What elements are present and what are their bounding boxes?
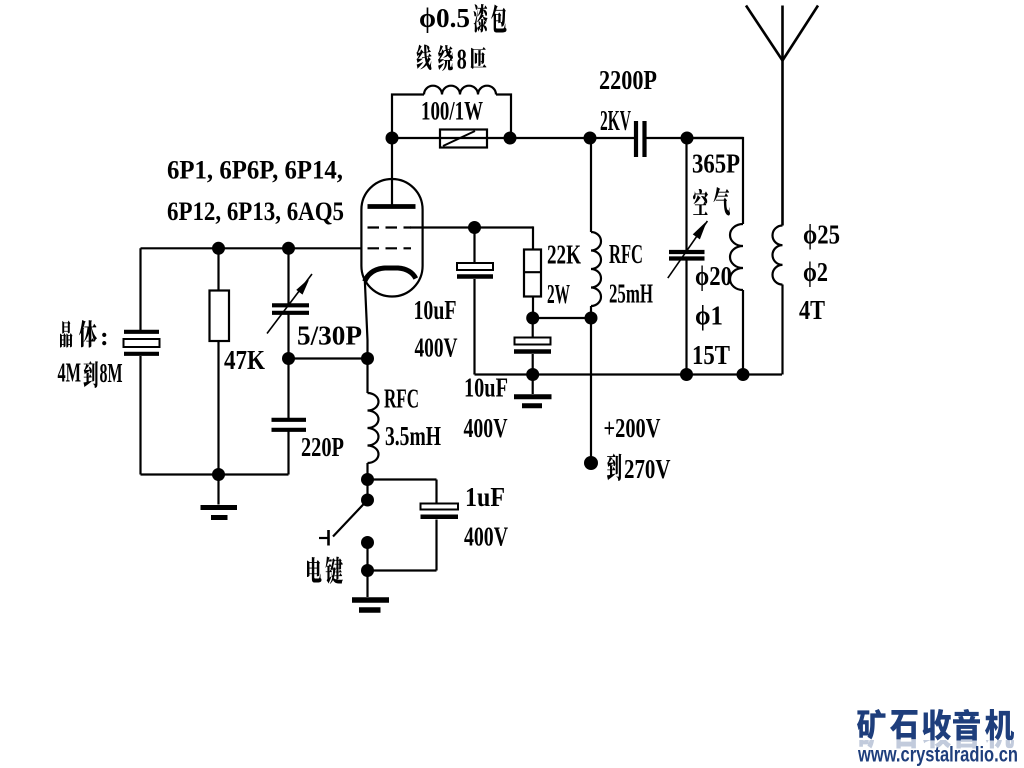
C1 arrow xyxy=(267,274,312,334)
C6 arrow xyxy=(668,221,708,278)
node C5 ground xyxy=(526,368,539,381)
label to 270V xyxy=(607,453,621,481)
inductor RFC2 25mH xyxy=(590,138,592,232)
node key bottom xyxy=(361,564,374,577)
svg-text::: : xyxy=(100,322,109,351)
svg-text:ϕ1: ϕ1 xyxy=(695,301,723,331)
tube V1 screen grid dashed xyxy=(368,226,412,228)
svg-text:ϕ25: ϕ25 xyxy=(803,220,840,250)
node cathode junction xyxy=(361,352,374,365)
ground key xyxy=(366,571,368,598)
wire below R3 xyxy=(532,297,534,319)
key S1 lower contact xyxy=(361,536,374,549)
capacitor C3 220P xyxy=(287,359,289,419)
node below R3 xyxy=(526,312,539,325)
svg-text:365P: 365P xyxy=(692,148,740,178)
key S1 fixed contact xyxy=(327,530,330,546)
svg-text:8: 8 xyxy=(457,44,467,76)
capacitor C5 10uF plate bypass xyxy=(532,318,534,338)
resistor R1 100/1W xyxy=(440,130,487,148)
tube V1 cathode xyxy=(365,268,416,282)
svg-text:220P: 220P xyxy=(301,432,344,462)
node screen bypass xyxy=(468,221,481,234)
key S1 moving contact xyxy=(361,494,374,507)
node key top feed xyxy=(361,473,374,486)
capacitor C7 1uF key bypass xyxy=(368,478,437,480)
svg-text:3.5mH: 3.5mH xyxy=(385,421,441,451)
wire top loop right xyxy=(496,95,511,139)
wire top loop left xyxy=(392,95,424,139)
C2 plus plate xyxy=(457,263,493,270)
svg-text:RFC: RFC xyxy=(609,239,643,269)
svg-text:25mH: 25mH xyxy=(609,279,653,309)
wire grid line xyxy=(141,247,362,249)
capacitor C6 365P air variable xyxy=(685,138,687,250)
inductor L1 plate coil 8 turns xyxy=(424,86,496,95)
wire crystal leg top xyxy=(139,248,141,330)
svg-text:+200V: +200V xyxy=(604,413,661,443)
node coil bottom xyxy=(737,368,750,381)
wire screen to right xyxy=(410,226,533,228)
svg-text:400V: 400V xyxy=(415,332,458,362)
node grid trimmer xyxy=(282,242,295,255)
inductor RFC1 3.5mH cathode choke xyxy=(366,359,368,394)
capacitor C1 5/30P trimmer xyxy=(287,248,289,303)
wire trimmer to cathode xyxy=(289,357,368,359)
vacuum tube V1 envelope xyxy=(361,179,422,297)
svg-text:4T: 4T xyxy=(799,295,825,325)
label S1 dianjian xyxy=(307,557,322,583)
svg-text:RFC: RFC xyxy=(384,383,419,413)
watermark logo kuangshi shouyinji xyxy=(857,709,1014,741)
resistor R3 22K screen xyxy=(524,250,541,297)
svg-text:8M: 8M xyxy=(100,358,123,388)
node grid 47K xyxy=(212,242,225,255)
svg-text:47K: 47K xyxy=(224,345,265,375)
label C6 kongqi xyxy=(693,189,708,215)
terminal B+ xyxy=(584,456,598,470)
svg-text:ϕ2: ϕ2 xyxy=(803,257,828,287)
svg-text:100/1W: 100/1W xyxy=(421,97,483,126)
wire R3 to RFC2 bottom xyxy=(533,317,591,319)
crystal Y1 xyxy=(124,330,159,334)
wire ground bus xyxy=(473,373,475,374)
svg-text:www.crystalradio.cn: www.crystalradio.cn xyxy=(857,744,1018,767)
node tank top xyxy=(681,132,694,145)
watermark logo echo xyxy=(857,717,1014,749)
C2 minus plate xyxy=(457,274,493,279)
node plate junction xyxy=(386,132,399,145)
inductor L3 antenna coil 4T xyxy=(773,226,783,285)
inductor L2 tank coil 15T xyxy=(687,138,743,224)
antenna xyxy=(781,6,784,226)
tube V1 plate xyxy=(368,204,416,209)
wire key to ground xyxy=(366,543,368,571)
node tank bottom left xyxy=(680,368,693,381)
wire key short xyxy=(366,480,368,501)
capacitor C2 10uF screen bypass xyxy=(473,228,475,264)
node RFC2 bottom xyxy=(585,312,598,325)
svg-text:1uF: 1uF xyxy=(465,482,505,512)
svg-text:15T: 15T xyxy=(692,340,730,370)
label L1 xianrao 8 za xyxy=(416,45,431,71)
svg-text:6P12, 6P13, 6AQ5: 6P12, 6P13, 6AQ5 xyxy=(167,197,344,226)
svg-text:2KV: 2KV xyxy=(600,106,631,137)
wire top bus xyxy=(392,137,636,139)
wire plate lead xyxy=(391,138,393,206)
wire B+ feed xyxy=(590,318,592,463)
node rfc2 top xyxy=(584,132,597,145)
svg-text:22K: 22K xyxy=(547,240,581,270)
svg-text:ϕ0.5: ϕ0.5 xyxy=(419,3,470,33)
wire cathode lead xyxy=(365,280,368,359)
wire bottom left rail xyxy=(141,473,289,475)
node loop right xyxy=(504,132,517,145)
capacitor C4 2200P coupling xyxy=(634,121,638,157)
resistor R2 47K grid leak xyxy=(217,248,219,290)
ground under C5 xyxy=(532,375,534,395)
svg-text:2200P: 2200P xyxy=(599,65,657,95)
svg-text:ϕ20: ϕ20 xyxy=(695,261,732,291)
svg-text:400V: 400V xyxy=(464,413,508,443)
svg-text:6P1, 6P6P, 6P14,: 6P1, 6P6P, 6P14, xyxy=(167,156,343,185)
ground left xyxy=(217,475,219,505)
label Y1 jingti xyxy=(60,321,73,348)
key S1 arm xyxy=(333,500,368,537)
wire screen corner down xyxy=(532,226,534,249)
svg-text:4M: 4M xyxy=(58,358,82,388)
svg-text:10uF: 10uF xyxy=(414,295,457,325)
svg-text:5/30P: 5/30P xyxy=(297,321,362,351)
svg-text:2W: 2W xyxy=(547,279,570,309)
tube V1 control grid dashed xyxy=(368,247,412,249)
svg-text:270V: 270V xyxy=(624,454,671,484)
node ground rail xyxy=(212,468,225,481)
svg-text:400V: 400V xyxy=(464,522,508,552)
svg-text:10uF: 10uF xyxy=(464,373,508,403)
node trimmer bottom xyxy=(282,352,295,365)
